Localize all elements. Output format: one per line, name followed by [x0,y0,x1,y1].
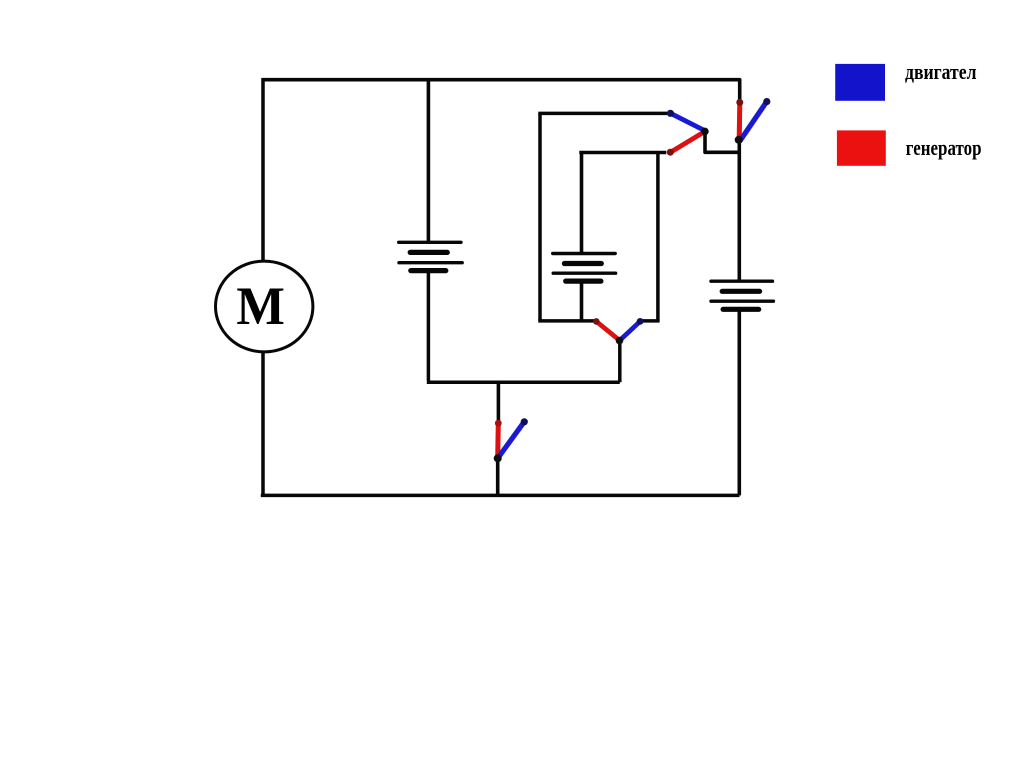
wire node to switch S3 [618,341,622,383]
wire step from switch S1 to right rail [705,132,741,153]
wire bottom [261,494,740,498]
legend red swatch [837,130,886,165]
wire switch S4 lower [496,458,500,497]
wire second horizontal [579,151,666,155]
switch S3 red arm [596,321,619,340]
svg-text:двигател: двигател [905,59,977,84]
switch S3 blue arm [620,322,640,341]
switch S1 blue arm [670,113,704,130]
legend blue swatch [835,64,885,101]
wire top (outer loop) [262,80,739,104]
switch S2 red contact cap [736,99,743,106]
wire inner loop bottom [538,319,596,323]
switch S2 blue contact cap [763,98,770,105]
svg-text:генератор: генератор [906,135,982,160]
switch S3 red contact cap [593,318,600,325]
switch S1 junction dot [701,128,709,136]
switch S3 junction dot [616,337,624,345]
switch S1 red arm [670,131,705,152]
battery B3 [711,281,773,309]
switch S4 blue contact cap [521,418,528,425]
wire switch S4 upper [497,382,501,423]
wire left lower [261,352,265,498]
wire inner loop top [538,112,667,116]
switch S2 junction dot [735,136,743,144]
wire battery B2 top [580,153,584,254]
battery B2 [553,254,616,282]
motor M1 [216,261,313,352]
switch S4 blue arm [498,422,524,458]
switch S2 red arm [737,103,743,140]
svg-text:M: M [236,276,285,336]
switch S4 red arm [495,423,501,457]
switch S1 red contact cap [667,149,674,156]
switch S3 blue contact cap [637,318,644,325]
wire battery B2 bottom [580,281,584,321]
wire inner loop right [656,153,660,321]
wire left upper [261,78,265,262]
wire battery B1 top [427,78,431,242]
switch S2 blue arm [740,102,767,141]
switch S4 red contact cap [495,420,502,427]
switch S4 junction dot [494,454,502,462]
switch S1 blue contact cap [667,110,674,117]
battery B1 [399,242,463,270]
wire battery B1 bottom [427,271,620,383]
wire right middle [737,142,741,281]
wire inner loop left [538,113,542,321]
wire right lower [737,311,741,496]
wire stub to switch S3 blue contact [641,319,660,323]
